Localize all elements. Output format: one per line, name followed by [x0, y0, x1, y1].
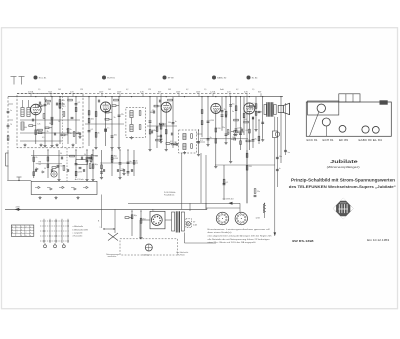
svg-text:1,2mA: 1,2mA	[210, 90, 216, 93]
svg-text:alle Netzteile die mit Netzspa: alle Netzteile die mit Netzspannung führ…	[208, 238, 271, 241]
svg-text:1,5: 1,5	[38, 89, 40, 91]
svg-text:ECH 81: ECH 81	[107, 78, 115, 80]
svg-text:2n: 2n	[154, 130, 156, 132]
svg-text:Prinzip-Schaltbild mit Strom-S: Prinzip-Schaltbild mit Strom-Spannungswe…	[291, 177, 396, 182]
svg-text:1: 1	[17, 227, 18, 229]
svg-text:Parallelkreis: Parallelkreis	[164, 194, 174, 197]
svg-text:30p: 30p	[134, 215, 137, 217]
svg-text:30p: 30p	[95, 164, 98, 166]
svg-text:25n: 25n	[143, 219, 146, 221]
svg-text:umschalter: umschalter	[108, 255, 117, 258]
svg-text:b Mittelwelle UKW: b Mittelwelle UKW	[73, 228, 89, 231]
svg-text:25p: 25p	[34, 114, 37, 116]
svg-text:0,3: 0,3	[170, 141, 172, 143]
svg-text:0,1: 0,1	[63, 106, 66, 108]
svg-text:8u: 8u	[130, 161, 132, 163]
svg-text:0,5M: 0,5M	[61, 166, 66, 168]
svg-text:0,5M: 0,5M	[114, 158, 119, 160]
svg-text:1n: 1n	[107, 128, 109, 130]
svg-text:Ein 10.12.1953: Ein 10.12.1953	[367, 238, 390, 242]
svg-text:9W RS-1398: 9W RS-1398	[292, 239, 314, 243]
svg-text:47k: 47k	[121, 114, 124, 116]
svg-text:EF 89: EF 89	[168, 78, 175, 80]
svg-text:ECC 81: ECC 81	[39, 78, 47, 80]
svg-text:1n: 1n	[175, 121, 177, 123]
svg-text:0: 0	[12, 229, 13, 231]
svg-text:25n: 25n	[257, 191, 260, 193]
svg-text:0,1: 0,1	[91, 129, 94, 131]
svg-text:50k: 50k	[24, 127, 27, 129]
svg-text:1n: 1n	[66, 129, 68, 131]
svg-text:Drehkopf: Drehkopf	[143, 255, 151, 257]
svg-text:0,2: 0,2	[186, 89, 188, 91]
svg-text:a Mittelwelle: a Mittelwelle	[73, 225, 83, 228]
svg-text:2k: 2k	[163, 125, 165, 127]
svg-text:0,1: 0,1	[200, 140, 203, 142]
svg-text:2: 2	[17, 232, 18, 234]
svg-text:47k: 47k	[95, 156, 98, 158]
svg-text:25n: 25n	[222, 127, 225, 129]
svg-text:30: 30	[60, 153, 62, 155]
svg-text:ECC 81: ECC 81	[307, 139, 319, 142]
svg-text:47k: 47k	[152, 110, 155, 112]
svg-text:Pr 80 100kHz: Pr 80 100kHz	[164, 191, 176, 194]
svg-text:a: a	[30, 232, 31, 234]
svg-text:50u: 50u	[279, 156, 282, 158]
svg-text:des TELEFUNKEN Wechselstrom-Su: des TELEFUNKEN Wechselstrom-Supers „Jubi…	[289, 184, 396, 189]
svg-text:1n: 1n	[136, 160, 138, 162]
svg-text:Jubilate: Jubilate	[330, 159, 358, 164]
svg-text:0,1: 0,1	[122, 168, 125, 170]
svg-text:220: 220	[249, 166, 252, 168]
svg-text:a: a	[21, 232, 22, 234]
svg-text:2: 2	[30, 229, 31, 231]
svg-text:0,1: 0,1	[252, 103, 255, 105]
svg-text:220: 220	[217, 128, 220, 130]
svg-text:b: b	[12, 232, 13, 234]
svg-text:50: 50	[44, 168, 46, 170]
svg-text:ECH 81: ECH 81	[323, 139, 335, 142]
svg-text:2: 2	[26, 227, 27, 229]
svg-text:1,5: 1,5	[252, 89, 254, 91]
svg-text:0,5: 0,5	[42, 137, 44, 139]
svg-text:1k: 1k	[58, 121, 60, 123]
svg-text:100: 100	[114, 135, 117, 137]
svg-text:70: 70	[10, 124, 12, 126]
svg-text:EL 84: EL 84	[373, 139, 383, 142]
svg-text:dem einen Ende(n): dem einen Ende(n)	[208, 232, 232, 234]
svg-text:d Kurzwelle: d Kurzwelle	[73, 235, 83, 238]
svg-text:EL 84: EL 84	[252, 78, 258, 80]
svg-text:a: a	[100, 227, 101, 229]
svg-text:A=C-Dreh: A=C-Dreh	[75, 178, 84, 181]
svg-text:5n: 5n	[232, 111, 234, 113]
svg-text:0,5M: 0,5M	[210, 120, 215, 122]
svg-text:130: 130	[244, 119, 247, 121]
svg-text:245: 245	[58, 89, 61, 91]
svg-text:47k: 47k	[62, 100, 65, 102]
svg-text:0,1: 0,1	[89, 159, 92, 161]
svg-text:0,2: 0,2	[126, 89, 128, 91]
svg-text:245: 245	[108, 89, 111, 91]
svg-text:2: 2	[26, 232, 27, 234]
svg-text:Ersatzweise: Leistungsaufnahm: Ersatzweise: Leistungsaufnahme genauer e…	[208, 228, 271, 231]
svg-text:Pb-Platte: Pb-Platte	[177, 254, 184, 257]
svg-text:30p: 30p	[44, 99, 47, 101]
svg-text:b: b	[26, 235, 27, 237]
svg-text:a: a	[21, 227, 22, 229]
svg-text:a: a	[17, 229, 18, 231]
svg-text:8u: 8u	[232, 103, 234, 105]
svg-text:mit UKW-Teil: mit UKW-Teil	[222, 197, 233, 200]
svg-text:2k: 2k	[35, 157, 37, 159]
svg-text:8u: 8u	[255, 138, 257, 140]
svg-text:2k: 2k	[224, 109, 226, 111]
svg-text:Ia: Ia	[279, 168, 281, 170]
svg-text:100: 100	[91, 119, 94, 121]
svg-text:eine abgeschirmte Leitung der: eine abgeschirmte Leitung der Anzeigen 2…	[208, 235, 273, 238]
svg-text:0,1: 0,1	[226, 182, 229, 184]
svg-text:0,5M: 0,5M	[78, 171, 83, 173]
svg-text:0,2: 0,2	[236, 89, 238, 91]
svg-text:5k: 5k	[49, 123, 51, 125]
svg-text:0,1: 0,1	[90, 168, 92, 170]
svg-text:10k: 10k	[168, 122, 171, 124]
svg-text:1,5: 1,5	[204, 89, 206, 91]
svg-text:etwa 21n: Werte auf 10% der PA: etwa 21n: Werte auf 10% der PA angepaßt	[208, 241, 257, 244]
svg-text:EABC 80: EABC 80	[217, 77, 227, 80]
svg-text:c Langwelle: c Langwelle	[73, 232, 83, 234]
svg-text:5n: 5n	[37, 130, 39, 132]
svg-text:b: b	[21, 229, 22, 231]
svg-text:a: a	[30, 227, 31, 229]
svg-text:EABC 80: EABC 80	[359, 139, 373, 142]
svg-text:2n: 2n	[70, 129, 72, 131]
svg-text:1234: 1234	[256, 218, 260, 220]
svg-text:2k: 2k	[98, 133, 100, 135]
svg-text:2k: 2k	[47, 131, 49, 133]
svg-text:0: 0	[21, 235, 22, 237]
svg-text:a: a	[30, 235, 31, 237]
svg-text:(Zitronempfänger): (Zitronempfänger)	[327, 165, 360, 169]
svg-text:12k: 12k	[37, 124, 40, 126]
svg-text:1n: 1n	[10, 110, 12, 112]
svg-text:GL: GL	[39, 164, 41, 166]
svg-text:0,9mA: 0,9mA	[28, 90, 34, 93]
svg-text:EF 89: EF 89	[339, 139, 349, 142]
svg-text:0,5: 0,5	[78, 102, 81, 104]
svg-text:5k: 5k	[114, 117, 116, 119]
svg-text:0: 0	[12, 227, 13, 229]
